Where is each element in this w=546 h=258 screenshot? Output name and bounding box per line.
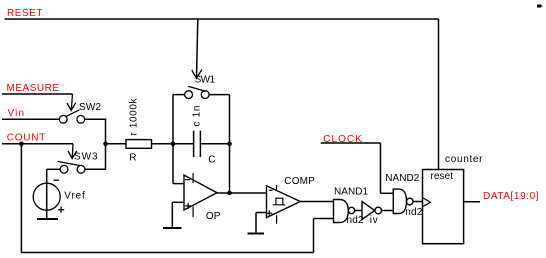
wire Vref to SW3 bbox=[47, 168, 60, 170]
svg-text:COUNT: COUNT bbox=[7, 133, 46, 144]
wire CLOCK net stub bbox=[321, 142, 381, 144]
wire SW2 output to node bbox=[85, 119, 106, 144]
svg-text:OP: OP bbox=[206, 211, 221, 222]
wire NAND2 input a bbox=[381, 192, 394, 194]
wire op-amp inverting input bbox=[173, 183, 184, 185]
wire right branch vertical to op-amp output bbox=[229, 95, 231, 193]
wire left branch vertical to op-amp inverting input bbox=[172, 95, 174, 184]
wire node to resistor R bbox=[106, 143, 127, 145]
switch SW3 bbox=[58, 161, 85, 173]
svg-text:counter: counter bbox=[445, 154, 483, 165]
svg-text:NAND1: NAND1 bbox=[334, 187, 368, 198]
svg-text:Vin: Vin bbox=[8, 108, 25, 119]
wire bottom feedback run bbox=[21, 252, 313, 254]
wire Vin net stub bbox=[2, 118, 59, 120]
wire SW3 control drop with arrowhead bbox=[68, 144, 77, 159]
wire riser to NAND1 input b bbox=[313, 219, 315, 253]
wire COUNT feedback left drop bbox=[20, 144, 22, 253]
wire resistor R to integrator node bbox=[152, 143, 174, 145]
wire op-amp ground stem bbox=[171, 202, 173, 228]
wire inverter output to NAND2 input b bbox=[382, 210, 394, 212]
stray cursor mark top right bbox=[537, 5, 542, 8]
wire Vref stem bbox=[46, 169, 48, 219]
wire capacitor right plate to right branch bbox=[200, 143, 229, 145]
switch SW1 bbox=[185, 86, 209, 98]
svg-text:COMP: COMP bbox=[284, 176, 315, 187]
svg-text:iv: iv bbox=[370, 215, 378, 226]
svg-text:SW1: SW1 bbox=[195, 75, 216, 86]
wire SW1 right terminal bbox=[209, 94, 229, 96]
resistor R1 box bbox=[126, 140, 152, 149]
counter clock input symbol bbox=[423, 198, 430, 206]
op-amp U1 OP bbox=[184, 173, 217, 217]
ground for op-amp bbox=[163, 227, 182, 229]
wire RESET drop to counter reset pin bbox=[438, 19, 440, 170]
svg-text:SW2: SW2 bbox=[79, 102, 101, 113]
svg-text:Vref: Vref bbox=[64, 190, 85, 201]
node integrator input junction bbox=[171, 142, 176, 147]
svg-text:nd2: nd2 bbox=[405, 207, 422, 218]
voltage source Vref bbox=[33, 180, 64, 213]
node op-amp output junction bbox=[227, 191, 232, 196]
ground for Vref bbox=[37, 218, 58, 220]
wire comparator non-inverting input bbox=[256, 212, 267, 214]
svg-text:R: R bbox=[129, 153, 136, 164]
wire COUNT net stub bbox=[2, 143, 73, 145]
wire RESET horizontal net bbox=[5, 18, 439, 20]
svg-text:C: C bbox=[208, 154, 215, 165]
wire integrator node to capacitor left plate bbox=[173, 143, 194, 145]
wire SW1 control drop with arrowhead bbox=[192, 19, 202, 78]
NAND gate NAND1 bbox=[334, 200, 355, 223]
wire comparator output to NAND1 input a bbox=[300, 201, 333, 203]
svg-text:MEASURE: MEASURE bbox=[7, 83, 60, 94]
svg-text:c 1n: c 1n bbox=[192, 106, 203, 127]
svg-text:r 1000k: r 1000k bbox=[129, 98, 140, 136]
wire comparator ground stem bbox=[255, 213, 257, 234]
capacitor C plates bbox=[194, 131, 201, 157]
wire MEASURE net stub bbox=[2, 93, 73, 95]
svg-text:NAND2: NAND2 bbox=[385, 173, 419, 184]
wire NAND1 output to inverter bbox=[355, 210, 362, 212]
svg-text:reset: reset bbox=[431, 171, 454, 182]
wire counter output to DATA bbox=[464, 201, 480, 203]
svg-text:CLOCK: CLOCK bbox=[323, 134, 362, 145]
node switch output junction bbox=[103, 142, 108, 147]
wire NAND1 input b bbox=[314, 218, 334, 220]
counter block bbox=[423, 170, 464, 244]
svg-text:SW3: SW3 bbox=[74, 151, 98, 162]
switch SW2 bbox=[59, 110, 84, 123]
wire SW3 output to node bbox=[85, 144, 106, 170]
wire NAND2 output to counter clock bbox=[413, 201, 422, 203]
node capacitor right junction bbox=[227, 142, 232, 147]
inverter U3 iv bbox=[362, 202, 382, 220]
wire op-amp non-inverting input bbox=[172, 201, 184, 203]
NAND gate NAND2 bbox=[393, 189, 413, 213]
svg-text:DATA[19:0]: DATA[19:0] bbox=[483, 191, 539, 202]
wire CLOCK drop bbox=[380, 143, 382, 193]
node COUNT feedback junction bbox=[19, 142, 24, 147]
wire SW2 control drop with arrowhead bbox=[67, 94, 76, 111]
wire op-amp output to comparator bbox=[217, 192, 267, 194]
svg-text:nd2: nd2 bbox=[347, 215, 364, 226]
svg-text:RESET: RESET bbox=[7, 8, 43, 19]
wire SW1 left terminal bbox=[173, 94, 185, 96]
comparator U2 COMP bbox=[266, 185, 300, 224]
ground for comparator bbox=[248, 233, 265, 235]
